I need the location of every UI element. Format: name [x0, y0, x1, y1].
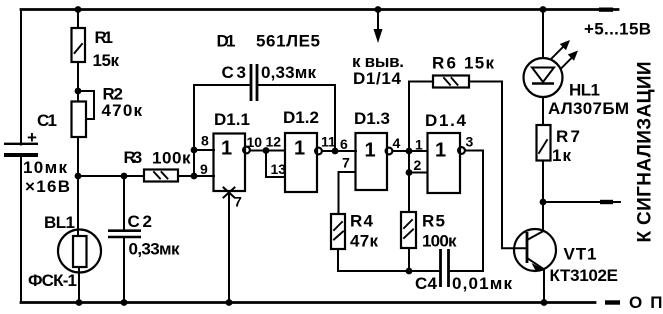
wire HL1 top [542, 10, 544, 59]
svg-text:12: 12 [266, 134, 282, 150]
svg-text:10мк: 10мк [23, 158, 67, 177]
wire R6 right to VT1 base [469, 82, 525, 249]
svg-text:9: 9 [200, 161, 208, 177]
node R5/C4 junction [406, 268, 413, 275]
svg-text:1: 1 [415, 137, 423, 153]
svg-text:R3: R3 [124, 148, 143, 167]
svg-text:D1.3: D1.3 [354, 109, 390, 128]
capacitor C3 [222, 63, 317, 101]
wire C2 top [123, 176, 125, 230]
wire pin13 L [266, 151, 285, 178]
node junction R1 on top rail [75, 6, 82, 13]
svg-text:С4: С4 [415, 274, 438, 293]
svg-text:С1: С1 [37, 111, 57, 130]
wire C3 left vertical [193, 85, 195, 176]
svg-text:АЛ307БМ: АЛ307БМ [548, 99, 629, 118]
node C2 on bottom rail [121, 299, 128, 306]
svg-text:К СИГНАЛИЗАЦИИ: К СИГНАЛИЗАЦИИ [635, 62, 656, 243]
svg-text:ФСК-1: ФСК-1 [28, 271, 77, 290]
svg-text:100к: 100к [422, 232, 457, 251]
svg-text:6: 6 [340, 136, 348, 152]
svg-text:D1.4: D1.4 [425, 111, 467, 130]
wire pin8 stub [194, 149, 214, 151]
wire power arrow to D1/14 [352, 10, 404, 89]
wire D1.1 ground pin 7 [228, 191, 230, 303]
capacitor C4 [415, 249, 512, 293]
svg-text:1: 1 [365, 140, 376, 162]
wire C2 bottom [123, 238, 125, 303]
svg-text:1: 1 [435, 140, 446, 162]
node signal junction [540, 199, 547, 206]
svg-text:КТ3102Е: КТ3102Е [550, 266, 619, 285]
node pin9 junction [191, 173, 198, 180]
svg-text:R5: R5 [422, 212, 445, 231]
svg-text:0,01мк: 0,01мк [452, 274, 512, 293]
wire BL1 bottom [78, 267, 80, 303]
svg-text:С2: С2 [128, 212, 153, 231]
wire R1 bottom [77, 62, 79, 91]
wire R5 bottom [408, 248, 410, 271]
svg-text:R6: R6 [432, 54, 456, 73]
wire R1 top [77, 10, 79, 29]
wire R4 bottom [338, 249, 439, 271]
svg-text:7: 7 [234, 194, 242, 210]
wire pin2 stub [409, 172, 428, 174]
wire pin1 stub [409, 150, 428, 152]
LED HL1 [524, 40, 630, 118]
resistor R2 (trimmer) [72, 85, 143, 138]
wire pin9 stub [194, 175, 214, 177]
svg-text:0,33мк: 0,33мк [129, 240, 180, 259]
wire left vertical lower [20, 157, 22, 303]
svg-text:D1.2: D1.2 [283, 108, 319, 127]
wire C3 left horizontal [194, 84, 250, 86]
node pin1/output4 junction [406, 148, 413, 155]
wire HL1 to R7 [542, 97, 544, 125]
wire D1.4 output down to C4 [450, 151, 483, 272]
wire R3 right [178, 175, 194, 177]
wire R2 bottom [77, 137, 79, 176]
wire R7 to VT1 collector [542, 161, 544, 232]
capacitor C2 [108, 212, 180, 259]
node pin2 junction [406, 169, 413, 176]
wire D1.1 output to D1.2 [250, 150, 285, 152]
node junction HL1 on top rail [540, 6, 547, 13]
svg-text:0,33мк: 0,33мк [261, 63, 316, 82]
wire pin7 of D1.3 to R4 [339, 172, 356, 214]
svg-text:R4: R4 [350, 212, 374, 231]
node pin12/13 junction [263, 147, 270, 154]
wire C3 right vertical [334, 85, 336, 151]
wire main horizontal to R3 [78, 175, 144, 177]
svg-text:4: 4 [393, 135, 401, 151]
svg-text:8: 8 [201, 133, 209, 149]
svg-text:561ЛЕ5: 561ЛЕ5 [256, 32, 320, 51]
svg-text:1к: 1к [552, 146, 571, 165]
resistor R3 [124, 148, 191, 182]
svg-text:R1: R1 [95, 28, 114, 47]
svg-text:10: 10 [247, 134, 263, 150]
resistor R5 [401, 212, 457, 251]
node pin8 junction [191, 147, 198, 154]
resistor R4 [331, 212, 378, 251]
wire C3 right horizontal [258, 84, 335, 86]
transistor VT1 [514, 229, 618, 285]
node R2/BL1/main junction [75, 173, 82, 180]
svg-text:R7: R7 [556, 127, 580, 146]
op-amp gate D1.3 [340, 109, 401, 190]
node BL1 on bottom rail [76, 299, 83, 306]
svg-text:×16В: ×16В [25, 177, 70, 196]
svg-text:2: 2 [414, 157, 422, 173]
wire R6 left vertical through pins [408, 82, 410, 213]
svg-text:HL1: HL1 [569, 81, 600, 100]
op-amp gate D1.2 [266, 108, 337, 192]
svg-text:7: 7 [342, 155, 350, 171]
svg-text:С3: С3 [222, 63, 247, 82]
resistor R6 [432, 54, 494, 88]
wire VT1 emitter [543, 269, 545, 302]
op-amp gate D1.1 [200, 110, 262, 191]
svg-text:47к: 47к [350, 232, 378, 251]
node junction arrow on top rail [375, 6, 382, 13]
svg-text:11: 11 [321, 134, 336, 150]
wire D1.2 output to D1.3 [322, 150, 356, 152]
wire left vertical upper [20, 10, 22, 145]
wire R6 left [409, 81, 433, 83]
resistor R7 [537, 125, 581, 165]
svg-text:100к: 100к [152, 149, 191, 168]
wire top power rail [21, 8, 618, 12]
wire signal output [543, 200, 620, 204]
svg-text:D1/14: D1/14 [353, 69, 402, 88]
svg-text:13: 13 [271, 161, 287, 177]
svg-text:VT1: VT1 [564, 245, 597, 264]
wire D1.3 output [393, 150, 410, 152]
node X mark pin7 [224, 188, 243, 210]
svg-text:+5...15В: +5...15В [584, 20, 651, 39]
wire bottom common rail [21, 300, 620, 304]
capacitor C1 [4, 111, 70, 196]
svg-text:D1: D1 [217, 32, 236, 51]
resistor R1 [72, 28, 120, 70]
node C3/pin6 junction [332, 148, 339, 155]
svg-text:BL1: BL1 [44, 213, 75, 232]
wire BL1 top [77, 176, 79, 236]
svg-text:470к: 470к [102, 101, 143, 120]
node pin7 on bottom rail [226, 299, 233, 306]
node C2 junction [121, 173, 128, 180]
svg-text:1: 1 [294, 138, 305, 160]
svg-text:15к: 15к [464, 54, 494, 73]
node emitter on bottom rail [541, 299, 548, 306]
svg-text:3: 3 [466, 134, 474, 150]
op-amp gate D1.4 [414, 111, 474, 193]
wire R2 top [77, 91, 79, 102]
svg-text:+: + [27, 128, 37, 147]
photoresistor BL1 [28, 213, 101, 290]
node R1/R2 junction [75, 88, 82, 95]
svg-text:1: 1 [221, 138, 232, 160]
svg-text:15к: 15к [93, 51, 120, 70]
svg-text:D1.1: D1.1 [214, 110, 250, 129]
